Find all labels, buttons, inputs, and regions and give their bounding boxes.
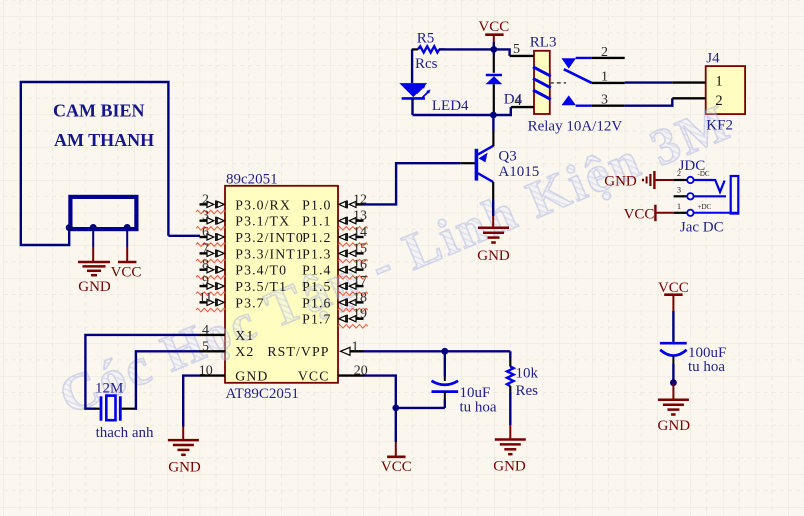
svg-text:P3.3/INT1: P3.3/INT1 (235, 246, 304, 261)
svg-text:+DC: +DC (698, 203, 712, 211)
svg-text:1: 1 (677, 202, 681, 211)
svg-text:R5: R5 (417, 30, 435, 46)
svg-text:Relay 10A/12V: Relay 10A/12V (528, 118, 623, 134)
pin 20 VCC (298, 364, 368, 384)
svg-text:X2: X2 (235, 344, 254, 359)
pin 18 P1.6 (302, 290, 368, 311)
wire R5 to VCC junction (439, 48, 494, 50)
svg-text:RST/VPP: RST/VPP (267, 344, 329, 359)
svg-text:-DC: -DC (698, 170, 710, 178)
svg-text:P3.4/T0: P3.4/T0 (235, 263, 287, 278)
power VCC top (478, 19, 509, 50)
junction where capacitor joins VCC line (392, 405, 399, 412)
wire pin20 to VCC (364, 376, 396, 457)
op-amp U1 value AT89C2051 (226, 386, 299, 402)
capacitor C 10uF (432, 351, 497, 415)
pin 17 P1.5 (302, 274, 368, 295)
svg-text:P3.2/INT0: P3.2/INT0 (235, 230, 304, 245)
ground below pin10 (168, 440, 201, 475)
wire pin1 RST net (364, 350, 511, 352)
svg-text:A1015: A1015 (498, 164, 539, 180)
pin 2 P3.0/RX (196, 192, 291, 213)
wire mic right pin to VCC (126, 229, 128, 262)
svg-text:VCC: VCC (478, 19, 509, 35)
svg-text:89c2051: 89c2051 (226, 171, 278, 187)
svg-text:J4: J4 (706, 51, 720, 67)
svg-text:15: 15 (353, 241, 367, 256)
svg-text:X1: X1 (235, 328, 254, 343)
svg-text:P1.5: P1.5 (302, 279, 331, 294)
svg-text:7: 7 (202, 241, 209, 256)
svg-text:14: 14 (353, 225, 367, 240)
pin 2 J4 (672, 93, 722, 109)
pin 6 P3.2/INT0 (196, 225, 304, 246)
svg-text:17: 17 (353, 274, 367, 289)
pin 8 P3.4/T0 (196, 258, 287, 279)
pin 4 X1 (200, 323, 255, 343)
svg-text:P1.2: P1.2 (302, 230, 331, 245)
svg-text:10uF: 10uF (460, 385, 491, 401)
svg-text:2: 2 (715, 93, 722, 109)
svg-text:4: 4 (202, 323, 209, 338)
wire relay pin1 to J4 pin1 (625, 81, 673, 83)
svg-text:3: 3 (202, 209, 209, 224)
wire pin5 to crystal (134, 351, 200, 408)
wire capacitor bottom to VCC line (396, 407, 445, 409)
microphone MIC (70, 197, 136, 229)
relay contact NO pin 3 (562, 93, 625, 108)
capacitor C 100uF (660, 311, 726, 383)
pin 16 P1.4 (302, 258, 368, 279)
junction below 100uF (670, 379, 677, 386)
relay RL3 coil box body (534, 51, 550, 114)
svg-text:10k: 10k (516, 365, 539, 381)
pin 3 P3.1/TX (196, 209, 290, 230)
wire relay pin3 to J4 pin2 (625, 98, 673, 105)
svg-text:P1.0: P1.0 (302, 197, 331, 212)
svg-text:12M: 12M (95, 381, 123, 397)
svg-text:VCC: VCC (381, 459, 412, 475)
pin 5 X2 (200, 339, 255, 359)
ground below 100uF (658, 400, 691, 434)
pin 2 JDC -DC (674, 169, 725, 192)
svg-text:1: 1 (352, 339, 359, 354)
JDC barrel (680, 176, 738, 235)
svg-text:10: 10 (199, 364, 213, 379)
resistor R 10k (507, 351, 539, 399)
svg-text:2: 2 (202, 192, 209, 207)
pin 13 P1.1 (302, 209, 368, 230)
diode D4 (486, 49, 523, 115)
watermark text (52, 94, 740, 426)
svg-text:2: 2 (601, 45, 608, 60)
ground below microphone (78, 262, 111, 295)
wire LED to junction to relay pin4 (413, 107, 511, 115)
svg-text:GND: GND (604, 174, 637, 190)
pin 7 P3.3/INT1 (196, 241, 304, 262)
pin 1 J4 (672, 73, 722, 89)
svg-text:11: 11 (199, 290, 212, 305)
wire Q3 collector up to diode junction (492, 115, 494, 146)
wire VCC junction to relay pin5 (494, 49, 510, 56)
svg-text:CAM BIEN: CAM BIEN (53, 101, 145, 121)
svg-text:GND: GND (477, 248, 510, 264)
svg-text:RL3: RL3 (530, 34, 557, 50)
wire pin4 to crystal (85, 335, 199, 409)
ground at JDC (horizontal) (604, 171, 673, 190)
svg-text:P1.1: P1.1 (302, 214, 331, 229)
svg-text:AM THANH: AM THANH (54, 130, 154, 150)
crystal Y1 12M (95, 381, 154, 442)
wire Q3 emitter to ground (492, 182, 494, 228)
svg-text:1: 1 (715, 73, 722, 89)
connector J4 body (706, 66, 745, 114)
junction on RST net (441, 348, 448, 355)
pin 11 P3.7 (196, 290, 265, 311)
transistor Q3 A1015 (476, 146, 539, 182)
svg-text:P3.5/T1: P3.5/T1 (235, 279, 287, 294)
svg-text:13: 13 (353, 209, 367, 224)
svg-text:P3.1/TX: P3.1/TX (235, 214, 290, 229)
power VCC right bottom (658, 280, 689, 311)
svg-text:GND: GND (658, 418, 691, 434)
wire from block to pin 6 (168, 235, 200, 237)
svg-text:8: 8 (202, 258, 209, 273)
ground below Q3 (477, 228, 510, 264)
svg-text:18: 18 (353, 290, 367, 305)
pin 1 JDC +DC (674, 202, 739, 216)
relay contact NC pin 2 (562, 45, 625, 69)
power VCC at microphone (111, 262, 142, 281)
junction top VCC node (490, 46, 497, 53)
wire 100uF to ground (672, 383, 674, 400)
svg-text:GND: GND (78, 279, 111, 295)
relay RL3 value label (528, 118, 623, 134)
power VCC below pin20 (381, 457, 412, 475)
op-amp U1 designator 89c2051 (226, 171, 278, 187)
svg-text:Q3: Q3 (498, 149, 516, 165)
svg-text:GND: GND (493, 459, 526, 475)
svg-text:tu hoa: tu hoa (688, 359, 725, 375)
svg-text:LED4: LED4 (432, 98, 469, 114)
svg-text:4: 4 (514, 93, 522, 109)
junction dots on microphone pins (66, 224, 131, 231)
connector J4 labels (706, 51, 733, 134)
wire R5 left down to LED (411, 49, 413, 83)
svg-text:VCC: VCC (624, 207, 655, 223)
junction LED/D4/Q3 node (490, 112, 497, 119)
svg-text:thach anh: thach anh (96, 425, 154, 441)
pin 15 P1.3 (302, 241, 368, 262)
LED LED4 (399, 83, 469, 114)
pin 14 P1.2 (302, 225, 368, 246)
ground below 10k (493, 440, 526, 475)
power VCC at JDC (624, 205, 674, 223)
svg-text:3: 3 (677, 185, 681, 194)
svg-text:Jac DC: Jac DC (680, 219, 724, 235)
pin 9 P3.5/T1 (196, 274, 287, 295)
svg-text:1: 1 (601, 70, 608, 85)
svg-text:9: 9 (202, 274, 209, 289)
svg-text:VCC: VCC (111, 265, 142, 281)
svg-text:P1.4: P1.4 (302, 263, 331, 278)
svg-text:GND: GND (235, 369, 268, 384)
svg-text:P3.0/RX: P3.0/RX (235, 197, 291, 212)
svg-text:2: 2 (677, 169, 681, 178)
connector JDC designator (679, 158, 706, 174)
svg-text:tu hoa: tu hoa (460, 400, 497, 416)
svg-text:P1.6: P1.6 (302, 295, 331, 310)
pin 12 P1.0 (302, 192, 367, 212)
svg-text:19: 19 (353, 307, 367, 322)
svg-text:AT89C2051: AT89C2051 (226, 386, 299, 402)
wire 10k to ground (509, 393, 511, 440)
svg-text:KF2: KF2 (706, 117, 733, 133)
svg-text:6: 6 (202, 225, 209, 240)
wire LED bottom to net (411, 98, 413, 115)
pin 1 RST/VPP (267, 339, 363, 359)
svg-text:5: 5 (202, 339, 209, 354)
relay RL3 designator (530, 34, 557, 50)
svg-text:3: 3 (601, 93, 608, 108)
svg-text:P1.3: P1.3 (302, 246, 331, 261)
svg-text:16: 16 (353, 258, 367, 273)
wire mic middle pin to ground (92, 229, 94, 262)
node CAM BIEN AM THANH sensor block outline (21, 82, 169, 245)
svg-text:Rcs: Rcs (415, 56, 438, 72)
resistor R5 Rcs (412, 30, 446, 71)
svg-text:P3.7: P3.7 (235, 295, 264, 310)
svg-text:Res: Res (516, 383, 539, 399)
op-amp U1 body (AT89C2051 IC rectangle) (225, 186, 338, 383)
wire pin12 to Q3 base (364, 163, 475, 204)
pin 19 P1.7 (302, 307, 368, 328)
svg-text:5: 5 (513, 42, 520, 57)
pin 3 JDC (674, 185, 726, 199)
wire pin10 to ground (183, 376, 199, 441)
pin 4 relay coil (511, 93, 534, 109)
pin 10 GND (199, 364, 269, 384)
relay blade and pin 1 (550, 69, 625, 84)
pin 5 relay coil (510, 42, 534, 57)
svg-text:P1.7: P1.7 (302, 312, 331, 327)
svg-text:GND: GND (168, 460, 201, 476)
relay RL3 coil (533, 67, 551, 100)
svg-text:VCC: VCC (298, 369, 330, 384)
